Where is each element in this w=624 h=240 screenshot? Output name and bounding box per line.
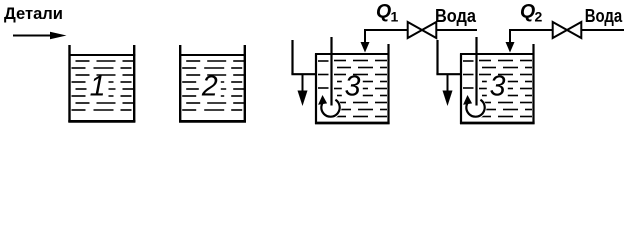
tank 3 water surface line, assembly 2 <box>460 53 534 55</box>
svg-text:Вода: Вода <box>585 6 623 26</box>
overflow chute wall, assembly 2 <box>436 40 438 74</box>
drain pipe with down arrow, assembly 1 <box>298 75 308 106</box>
circulation (rotation) symbol, assembly 1 <box>318 95 340 117</box>
tank 3 water hatching dashes, assembly 1 <box>318 61 387 117</box>
tank 3 water hatching dashes, assembly 2 <box>463 61 532 117</box>
tank 1 (bath) walls and bottom <box>68 45 135 122</box>
svg-text:Q: Q <box>376 1 391 23</box>
drain pipe with down arrow, assembly 2 <box>443 75 453 106</box>
svg-text:3: 3 <box>490 71 506 103</box>
tank 2 water hatching dashes <box>182 61 244 110</box>
tank 3 walls and bottom, assembly 1 <box>315 44 390 124</box>
weir partition / dip tube, assembly 1 <box>330 37 332 106</box>
svg-text:Вода: Вода <box>435 6 477 26</box>
white clearance behind label 2 <box>199 77 221 99</box>
overflow chute bottom, assembly 1 <box>291 73 317 75</box>
overflow chute wall, assembly 1 <box>291 40 293 74</box>
circulation (rotation) symbol, assembly 2 <box>463 95 485 117</box>
white clearance behind circulation symbol, assembly 2 <box>465 97 487 119</box>
svg-text:3: 3 <box>345 71 361 103</box>
overflow chute bottom, assembly 2 <box>436 73 462 75</box>
svg-text:2: 2 <box>201 71 218 103</box>
supply pipe (wire) after valve, assembly 1 <box>437 29 478 31</box>
water inlet pipe with down arrow, assembly 1 <box>361 29 370 53</box>
tank 3 water surface line, assembly 1 <box>315 53 389 55</box>
tank 1 water surface line <box>69 54 136 56</box>
svg-text:1: 1 <box>90 71 106 103</box>
water inlet pipe with down arrow, assembly 2 <box>506 29 515 53</box>
supply pipe (wire) before valve, assembly 2 <box>509 29 553 31</box>
tank 3 walls and bottom, assembly 2 <box>460 44 535 124</box>
supply pipe (wire) before valve, assembly 1 <box>364 29 408 31</box>
label Q1 (flow rate) <box>376 1 399 25</box>
svg-text:2: 2 <box>535 9 543 25</box>
valve 2 (bowtie symbol) <box>553 22 582 38</box>
tank 2 water surface line <box>179 54 246 56</box>
white clearance behind label 1 <box>87 77 109 99</box>
white clearance behind label 3, assembly 1 <box>342 76 363 97</box>
tank 1 water hatching dashes <box>72 61 134 110</box>
label Q2 (flow rate) <box>520 1 543 25</box>
weir partition / dip tube, assembly 2 <box>475 37 477 106</box>
svg-text:Детали: Детали <box>4 5 63 23</box>
svg-text:Q: Q <box>520 1 535 23</box>
arrow: parts feed direction <box>13 32 67 40</box>
supply pipe (wire) after valve, assembly 2 <box>582 29 624 31</box>
white clearance behind label 3, assembly 2 <box>487 76 508 97</box>
white clearance behind circulation symbol, assembly 1 <box>320 97 342 119</box>
svg-text:1: 1 <box>391 9 399 25</box>
tank 2 (bath) walls and bottom <box>179 45 246 122</box>
valve 1 (bowtie symbol) <box>408 22 437 38</box>
